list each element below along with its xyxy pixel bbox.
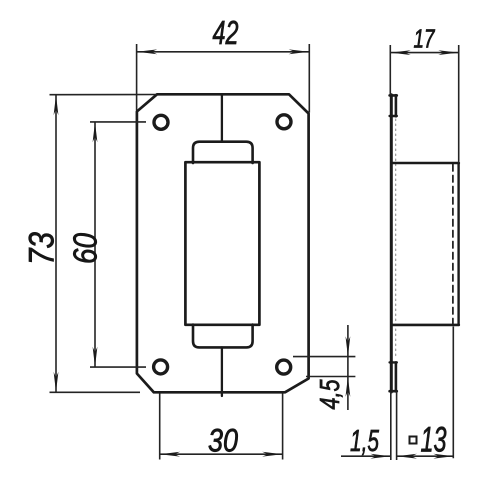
center line lower xyxy=(221,347,223,396)
dim 13 extension right xyxy=(452,327,454,459)
svg-text:1,5: 1,5 xyxy=(350,423,380,458)
arrow 73 top xyxy=(54,95,59,115)
hole top-right xyxy=(277,115,291,129)
arrow 30 left xyxy=(160,452,180,457)
dim 1,5 extension left xyxy=(390,392,392,460)
dim 42 line xyxy=(137,51,310,53)
dim 17 extension right xyxy=(458,45,460,163)
arrow 42 left xyxy=(137,49,157,54)
svg-text:17: 17 xyxy=(414,24,436,54)
dim 42 extension left xyxy=(136,44,138,111)
dim 17 line xyxy=(390,52,458,54)
dim 30 line xyxy=(160,453,283,455)
svg-text:60: 60 xyxy=(66,232,103,264)
dim 73 extension bottom xyxy=(50,391,141,393)
arrow 4,5 lower (points up) xyxy=(346,377,351,397)
dim 1,5 line xyxy=(341,455,390,457)
coil bottom cap xyxy=(193,325,253,348)
coil body (front view) xyxy=(185,162,259,325)
label square symbol for 13 xyxy=(410,437,417,444)
side view plate bottom cap xyxy=(390,390,397,393)
side view plate top cap xyxy=(390,94,397,97)
svg-text:42: 42 xyxy=(213,14,239,51)
side view plate hidden face dotted xyxy=(395,119,397,359)
dim 73 extension top xyxy=(50,94,158,96)
arrow 17 left xyxy=(391,50,411,55)
dim 4,5 extension top xyxy=(293,356,355,358)
dim 13 line xyxy=(397,455,454,457)
dim 30 extension left xyxy=(159,394,161,460)
arrow 60 top xyxy=(93,122,98,142)
hole bottom-right xyxy=(277,360,291,374)
dim 60 extension bottom xyxy=(90,366,146,368)
side view body hidden edge dashed xyxy=(452,165,454,324)
plate outline (front view, chamfered corners) xyxy=(137,94,309,392)
dim 1,5 extension right xyxy=(396,391,398,460)
arrow 4,5 upper (points down) xyxy=(346,336,351,356)
side view body bottom edge xyxy=(392,324,459,327)
svg-text:4,5: 4,5 xyxy=(314,379,345,409)
arrow 13 left (points left) xyxy=(397,454,417,459)
dim 4,5 extension bottom xyxy=(306,376,355,378)
dim 60 line xyxy=(94,122,96,367)
dim 4,5 line xyxy=(347,325,349,410)
dim 60 extension top xyxy=(90,121,146,123)
side view body right edge xyxy=(457,163,459,325)
hole top-left xyxy=(154,115,168,129)
center line upper xyxy=(221,96,223,142)
svg-text:30: 30 xyxy=(208,423,238,459)
coil top cap xyxy=(193,142,253,163)
arrow 73 bottom xyxy=(54,372,59,392)
side view plate tick upper xyxy=(390,115,397,117)
arrow 17 right xyxy=(438,50,458,55)
side view body top edge xyxy=(392,162,459,165)
svg-text:73: 73 xyxy=(22,232,61,265)
side view plate tick lower xyxy=(390,361,397,363)
svg-text:13: 13 xyxy=(421,421,447,460)
dim 30 extension right xyxy=(282,394,284,460)
arrow 60 bottom xyxy=(93,347,98,367)
dim 42 extension right xyxy=(308,44,310,113)
arrow 13 right (points right) xyxy=(433,454,453,459)
side view plate right face lower segment xyxy=(395,362,398,391)
side view plate right face upper segment xyxy=(395,95,398,116)
arrow 30 right xyxy=(262,452,282,457)
arrow 1,5 (points right at plate) xyxy=(370,454,390,459)
arrow 42 right xyxy=(289,49,309,54)
dim 17 extension left xyxy=(389,45,391,95)
side view plate left face xyxy=(390,95,393,392)
hole bottom-left xyxy=(154,360,168,374)
dim 73 line xyxy=(55,95,57,393)
